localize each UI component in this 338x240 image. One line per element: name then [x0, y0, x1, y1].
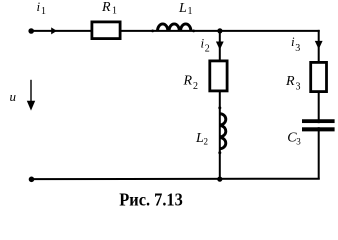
terminal top-left [28, 28, 34, 34]
wire bottom horizontal [31, 178, 319, 180]
L2 lead dot top [218, 106, 221, 109]
label R1 [101, 0, 117, 17]
inductor L1 [158, 24, 191, 31]
node junction bottom middle [217, 177, 222, 182]
svg-text:u: u [10, 89, 17, 104]
capacitor C3 plate top [302, 119, 335, 123]
node junction top middle [217, 28, 222, 33]
current arrow i3 [315, 41, 323, 49]
label R3 [285, 74, 301, 93]
wire right vertical [318, 30, 320, 180]
svg-text:1: 1 [112, 6, 117, 17]
svg-text:3: 3 [296, 82, 301, 93]
label L1 [178, 1, 193, 17]
wire middle vertical [219, 31, 221, 180]
svg-text:1: 1 [188, 6, 193, 17]
svg-text:R: R [183, 74, 193, 89]
current arrow i1 [51, 27, 57, 34]
L1 lead dot right [192, 30, 195, 33]
voltage arrow u [27, 80, 35, 111]
current arrow i2 [216, 42, 224, 50]
label C3 [287, 130, 301, 146]
label L2 [195, 131, 208, 147]
svg-text:3: 3 [296, 137, 301, 147]
label R2 [183, 74, 199, 93]
svg-text:L: L [178, 1, 187, 16]
L2 lead dot bottom [218, 151, 221, 154]
wire top horizontal [31, 30, 320, 32]
svg-text:3: 3 [295, 43, 300, 54]
svg-text:R: R [101, 0, 111, 15]
inductor L2 [220, 114, 226, 149]
svg-text:Рис. 7.13: Рис. 7.13 [119, 190, 183, 210]
L1 lead dot left [151, 30, 154, 33]
label i3 [291, 34, 300, 54]
capacitor C3 gap mask [301, 123, 336, 127]
svg-text:R: R [285, 74, 295, 89]
label i1 [37, 0, 47, 17]
capacitor C3 plate bottom [302, 127, 335, 131]
svg-text:1: 1 [41, 6, 46, 17]
resistor R2 [210, 61, 227, 91]
svg-text:2: 2 [204, 137, 209, 147]
svg-text:2: 2 [193, 81, 198, 92]
svg-text:i: i [37, 0, 41, 14]
terminal bottom-left [29, 177, 35, 183]
resistor R3 [311, 62, 327, 91]
svg-text:2: 2 [205, 44, 210, 55]
label i2 [201, 36, 210, 55]
resistor R1 [92, 22, 120, 39]
